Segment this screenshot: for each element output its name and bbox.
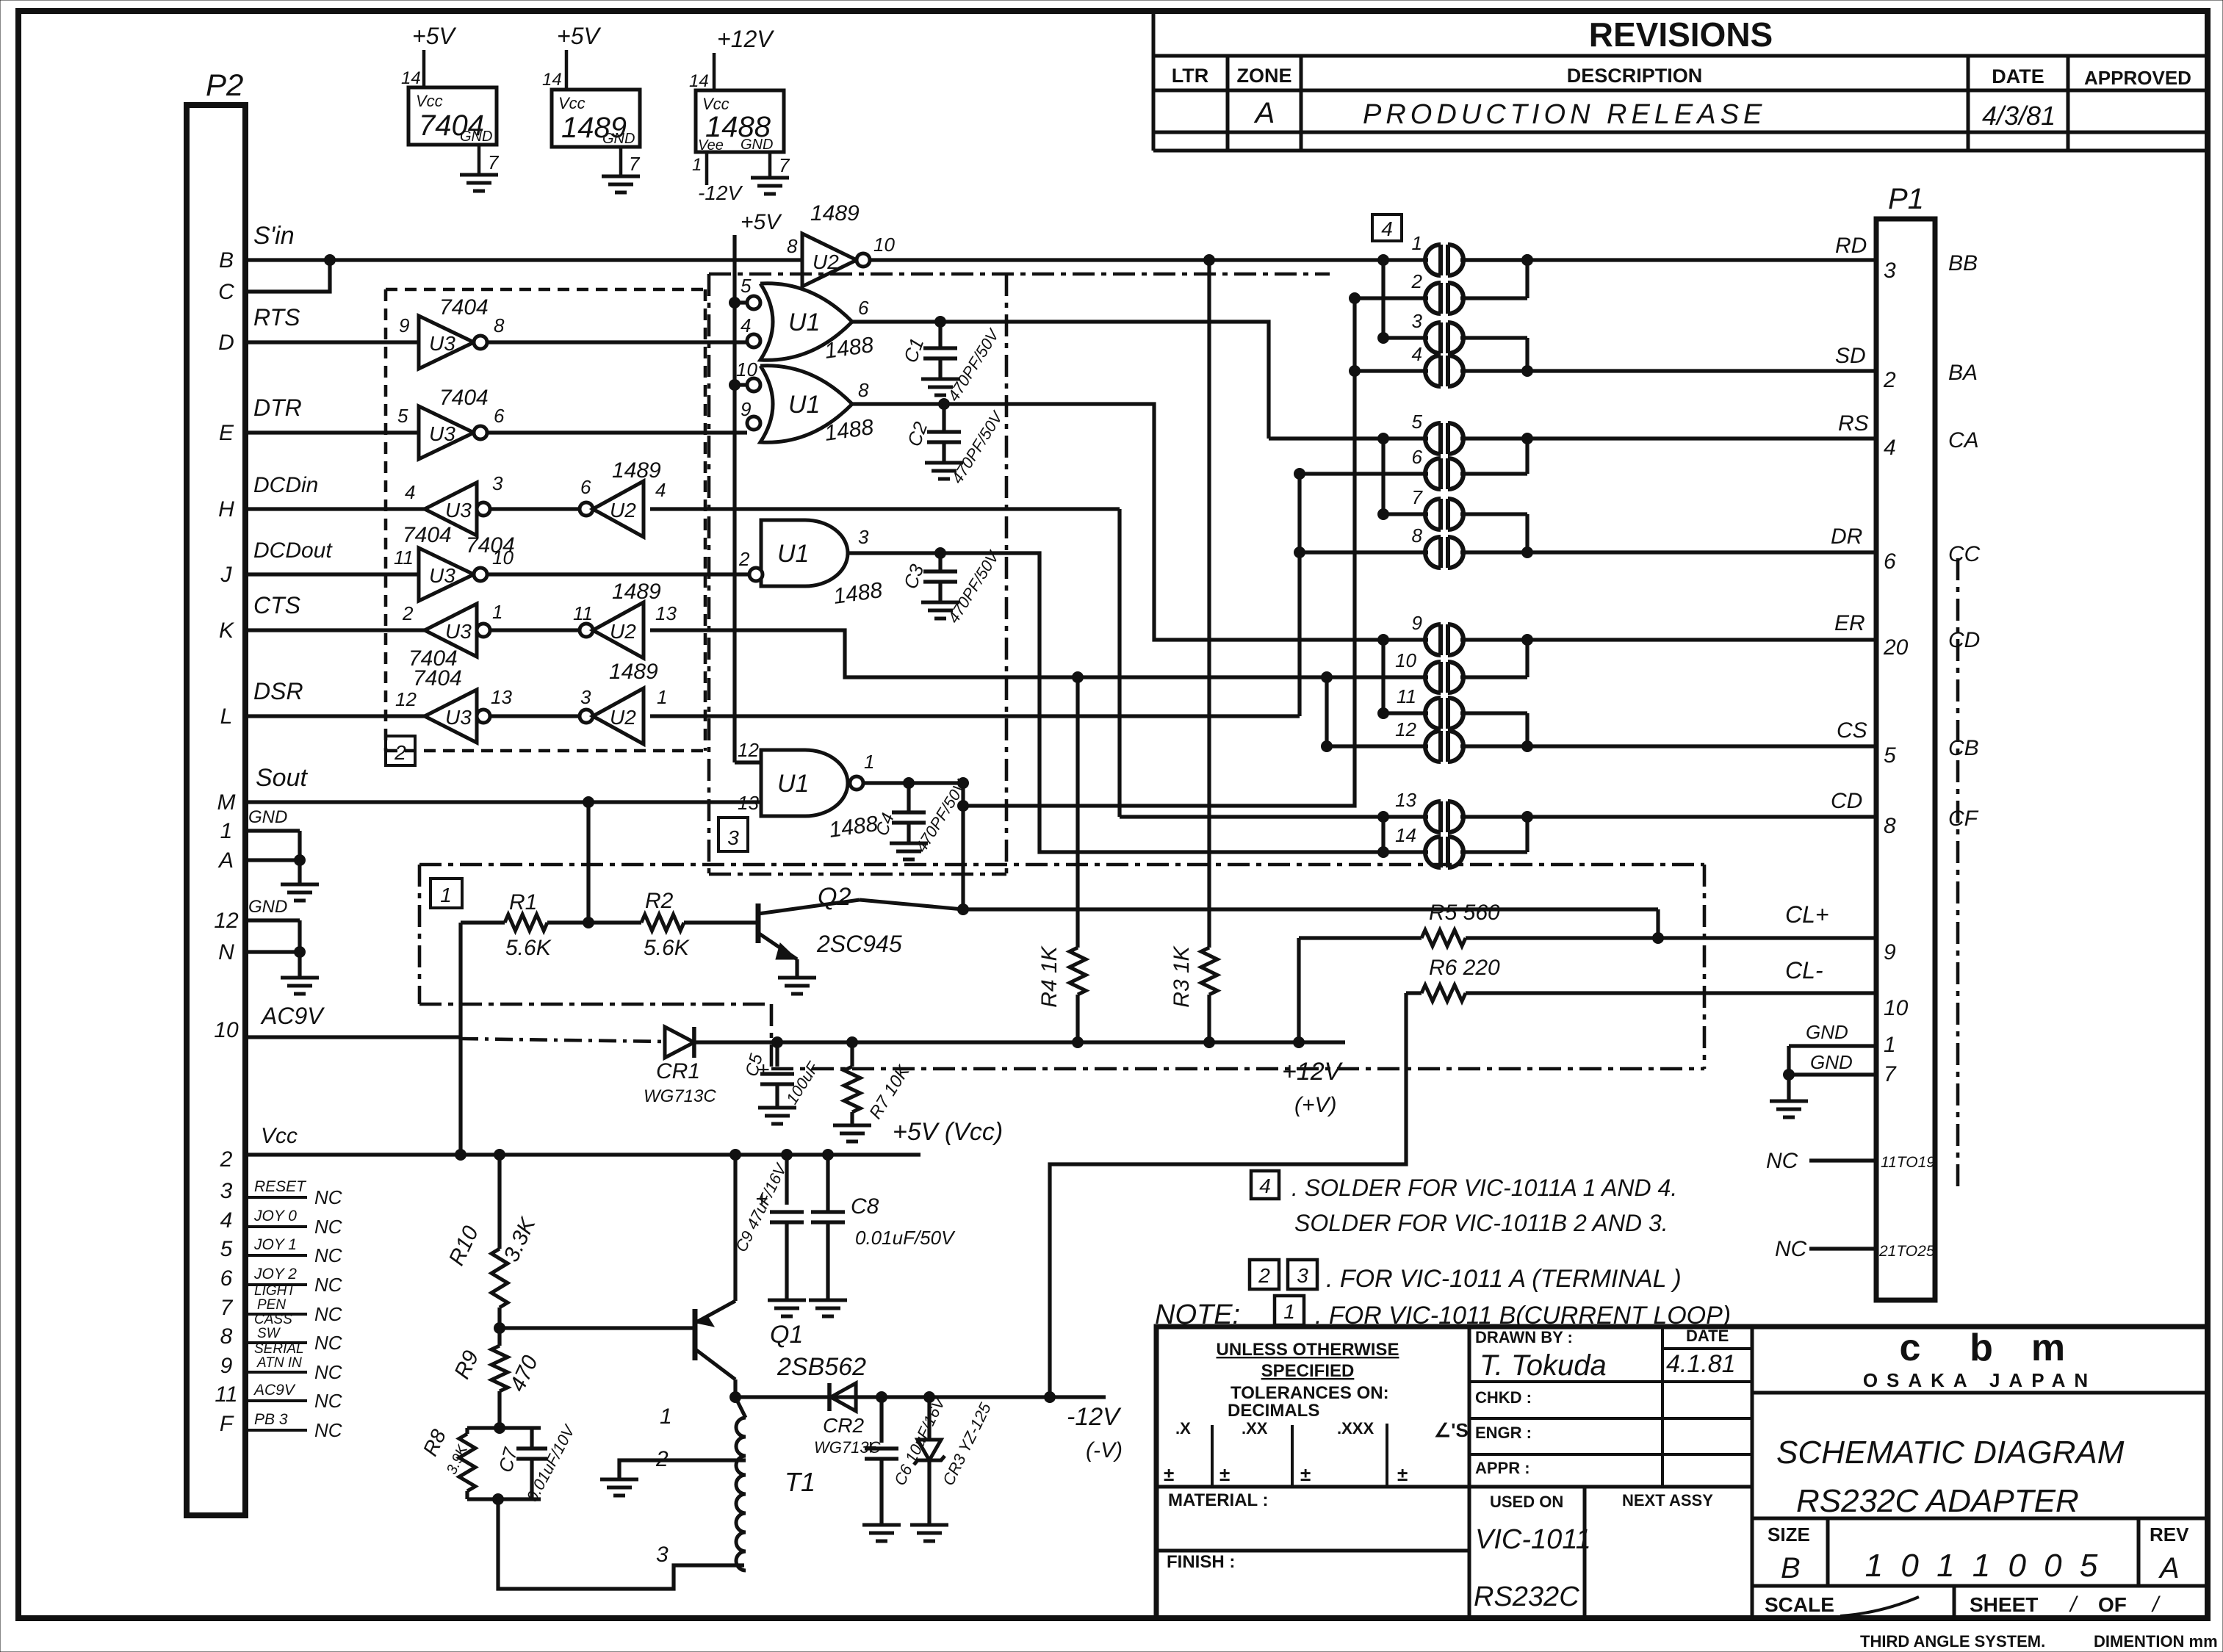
svg-text:7: 7 [1884,1062,1897,1086]
receiver U2 (DCDin, pins 6-4) [580,458,666,537]
receiver U2 (DSR, pins 3-1) [580,660,667,744]
svg-text:T. Tokuda: T. Tokuda [1480,1349,1607,1382]
resistor R5 560 [1299,901,1500,946]
svg-text:RTS: RTS [253,304,300,331]
node U1C/C3 [935,548,946,559]
svg-text:+5V: +5V [412,23,456,49]
svg-text:2: 2 [738,548,750,570]
ground (U3 7404 pin 7) [460,175,498,191]
svg-text:7404: 7404 [439,386,489,410]
svg-text:CC: CC [1948,542,1981,566]
node pad10 tie [1322,672,1333,683]
svg-text:10: 10 [736,358,757,380]
wire TX (U1D out) [865,781,963,784]
svg-text:±: ± [1300,1463,1311,1485]
svg-text:±: ± [1219,1463,1230,1485]
svg-text:Vcc: Vcc [261,1124,298,1148]
svg-text:JOY 2: JOY 2 [253,1266,297,1283]
resistor R6 220 [1406,956,1500,1001]
svg-text:7: 7 [779,154,790,176]
power block U3 7404 [401,23,500,173]
svg-text:SERIAL: SERIAL [254,1341,304,1357]
svg-text:13: 13 [655,602,677,624]
capacitor C6 10uF [864,1393,949,1523]
wire GND pin12 [245,897,300,920]
wire pad13 right [1460,815,1527,818]
svg-text:U2: U2 [813,250,839,273]
svg-text:U3: U3 [429,422,455,445]
svg-text:CA: CA [1948,428,1979,452]
drawn block text [1474,1327,1736,1612]
node Vcc/C9 [782,1150,793,1161]
box 3 (1488 group, dash-dot) [709,274,1330,874]
driver U1 gate D (pins 12,13-1) [738,739,879,843]
svg-text:BA: BA [1948,361,1978,385]
node pad tie 7 [1522,812,1533,823]
svg-text:12: 12 [395,688,417,710]
svg-text:U1: U1 [777,770,809,798]
wire pad11 right [1460,711,1527,715]
wire pad right tie 2 [1525,338,1529,371]
inverter U3 (CTS, pins 2-1) [402,601,502,671]
svg-text:REV: REV [2150,1523,2189,1545]
wire R8C7 bottom rail [467,1497,541,1501]
node CR3/-12V [924,1392,935,1403]
connector P1 [1876,183,1935,1300]
svg-text:1489: 1489 [612,580,661,604]
svg-text:21TO25: 21TO25 [1878,1243,1935,1260]
svg-text:USED ON: USED ON [1490,1493,1563,1511]
svg-text:A: A [1254,97,1275,129]
wire DTR row (P2.E to U3) [245,394,419,433]
capacitor C8 0.01uF [811,1155,956,1299]
node +5V/pin10 [729,380,741,391]
svg-text:0.01uF/50V: 0.01uF/50V [855,1227,956,1249]
svg-text:4: 4 [220,1208,233,1233]
svg-text:CASS: CASS [254,1312,292,1327]
wire AC9V row [245,1003,665,1042]
svg-text:14: 14 [542,70,562,90]
node pad tie 5 [1522,635,1533,646]
node RD/R3 [1204,255,1215,266]
resistor R1 5.6K [461,890,552,960]
svg-text:11TO19: 11TO19 [1881,1154,1935,1171]
node pads2-4 tie top [1350,293,1361,304]
wire GND tie A [298,831,301,860]
wire ER row to P1 [1527,638,1876,641]
svg-text:UNLESS OTHERWISE: UNLESS OTHERWISE [1217,1340,1399,1360]
node U1D/C4 [904,778,915,789]
svg-text:R3 1K: R3 1K [1170,945,1194,1007]
svg-text:OF: OF [2098,1593,2127,1616]
svg-text:R6 220: R6 220 [1429,956,1500,980]
svg-text:7: 7 [220,1296,234,1320]
node R10/Q1 base [494,1323,505,1334]
node +12V/R4 [1073,1037,1084,1048]
wire GND pin N [245,950,300,953]
svg-text:GND: GND [741,137,773,153]
svg-text:5.6K: 5.6K [505,936,552,960]
ground (C3) [921,602,959,618]
svg-text:APPR :: APPR : [1475,1459,1530,1477]
svg-text:C: C [218,280,234,304]
svg-text:11: 11 [1397,685,1416,707]
svg-text:L: L [220,704,233,729]
node +12V/R7 [847,1037,858,1048]
svg-text:+12V: +12V [717,26,774,52]
wire R8C7 top rail [467,1426,541,1429]
node -12V vertical [1045,1392,1056,1403]
transformer T1 [619,1397,815,1570]
svg-text:NC: NC [1775,1237,1807,1261]
svg-text:CF: CF [1948,807,1979,831]
wire CD row to P1 [1527,815,1876,818]
node pad tie 2 [1522,366,1533,377]
wire pad10 right [1460,675,1527,679]
svg-text:NC: NC [314,1390,342,1412]
driver U1 gate A (pins 5,4-6) [741,275,875,364]
node Sout/R2 branch [583,797,594,808]
capacitor C3 [899,547,1004,627]
svg-text:CB: CB [1948,736,1979,760]
wire pad7 right [1460,512,1527,516]
svg-text:R4 1K: R4 1K [1037,945,1062,1007]
svg-text:3: 3 [1412,310,1423,332]
svg-text:7404: 7404 [403,523,452,547]
svg-text:RESET: RESET [254,1178,307,1195]
node pad tie 3 [1522,433,1533,444]
svg-text:U3: U3 [445,499,472,522]
svg-text:F: F [220,1412,234,1436]
ground (C4) [890,843,928,859]
svg-text:E: E [219,421,234,445]
ground (C1) [921,379,959,395]
svg-text:SW: SW [257,1326,281,1341]
ground (U2 1489 pin 7) [602,176,640,192]
wire CL+ branch [1656,909,1660,938]
svg-text:A: A [217,848,234,873]
svg-text:NC: NC [314,1419,342,1441]
node RD/pad right tie [1522,255,1533,266]
wire TX vertical [961,783,965,909]
ground (CR3) [910,1525,948,1541]
svg-text:THIRD ANGLE SYSTEM.: THIRD ANGLE SYSTEM. [1860,1632,2045,1651]
svg-text:1: 1 [864,751,874,773]
svg-text:ENGR :: ENGR : [1475,1424,1532,1442]
ground (R7) [833,1125,871,1141]
wire pad9 right [1460,638,1527,641]
svg-text:3: 3 [1884,259,1896,283]
svg-text:4: 4 [1381,217,1393,240]
svg-text:2: 2 [220,1147,233,1172]
svg-text:R1: R1 [509,890,537,915]
wire pads9-11 tie [1381,640,1385,713]
svg-text:D: D [218,331,234,355]
node pad tie 4 [1522,547,1533,558]
wire RTS row (P2.D to U3) [245,304,419,342]
svg-text:RD: RD [1835,234,1867,258]
node ER/pads 9-11 tie [1378,635,1389,646]
wire RS row to P1 [1527,436,1876,440]
solder pad 8 [1412,524,1463,568]
svg-text:ATN IN: ATN IN [256,1355,302,1371]
wire pad10 left [1327,675,1428,679]
wire pad1 right [1460,258,1527,261]
svg-text:6: 6 [1884,549,1896,574]
svg-text:A: A [2158,1552,2180,1584]
wire DCDout' (U3 out to U1 pin2) [487,572,750,576]
node Vcc/C8 [823,1150,834,1161]
svg-text:10: 10 [214,1018,239,1042]
svg-text:DR: DR [1831,524,1862,549]
wire pad8 right [1460,550,1527,554]
node pads2-4 tie mid [1350,366,1361,377]
wire RD row (U2 out to P1 pin3) [870,258,1876,261]
wire pad12 left [1327,744,1428,748]
wire pad5 left [1269,436,1428,440]
wire GND7 (P1 pin7) [1789,1051,1876,1075]
svg-text:U2: U2 [610,499,636,522]
svg-text:ZONE: ZONE [1236,65,1291,87]
svg-text:B: B [219,248,234,273]
svg-text:4/3/81: 4/3/81 [1982,101,2056,131]
svg-text:8: 8 [787,235,798,257]
node Sin/C junction [325,255,336,266]
ground (U1 1488 pin 7) [751,178,789,194]
wire NC 21to25 [1775,1237,1876,1261]
svg-text:.XXX: .XXX [1337,1419,1374,1438]
node pad6 tie [1294,469,1305,480]
wire pad right tie 7 [1525,817,1529,852]
solder pad 6 [1412,446,1463,489]
node RD/pad1 tie [1378,255,1389,266]
svg-text:GND: GND [602,131,635,147]
svg-text:LIGHT: LIGHT [254,1283,296,1299]
svg-text:2: 2 [1883,368,1896,392]
svg-text:TOLERANCES ON:: TOLERANCES ON: [1231,1383,1389,1403]
svg-text:3: 3 [656,1543,669,1567]
svg-text:U3: U3 [445,706,472,729]
node pad5 tie [1378,433,1389,444]
wire CD' (U1C out to pad14) [848,553,1428,852]
svg-text:14: 14 [689,71,709,91]
svg-text:13: 13 [491,686,512,708]
svg-text:9: 9 [741,398,751,420]
wire GND pin A [245,858,300,862]
svg-text:1: 1 [220,819,233,843]
inverter U3 (DSR, pins 12-13) [395,666,512,743]
svg-text:b: b [1970,1327,1993,1369]
wire DSR from pads (U2 in to x1769) [650,714,1300,718]
svg-text:GND: GND [1806,1021,1848,1043]
svg-text:c: c [1900,1327,1921,1369]
wire pad2 left [1355,296,1428,300]
ground (C5) [758,1108,796,1124]
wire DCDin row (P2.H to U3) [245,473,425,509]
node pad7 tie [1378,509,1389,520]
svg-text:11: 11 [573,602,593,624]
svg-text:4: 4 [1884,436,1896,460]
svg-text:1: 1 [440,884,452,906]
wire pad13 left [1120,815,1428,818]
node pad11 tie [1378,708,1389,719]
ground (C8) [809,1300,847,1316]
node U1B/C2 [939,399,950,410]
svg-text:MATERIAL :: MATERIAL : [1168,1490,1268,1510]
node CTS/R4 [1073,672,1084,683]
svg-text:2SB562: 2SB562 [777,1353,866,1381]
svg-text:CR1: CR1 [656,1059,700,1083]
svg-text:7404: 7404 [439,295,489,320]
capacitor C7 0.01uF [494,1421,580,1504]
driver U1 gate B (pins 10,9-8) [736,358,875,446]
wire CS row to P1 [1527,744,1876,748]
solder pad 2 [1411,270,1463,314]
net Vcc row [245,1118,1003,1155]
svg-text:DATE: DATE [1992,65,2044,87]
svg-text:SOLDER FOR VIC-1011B 2 AND 3.: SOLDER FOR VIC-1011B 2 AND 3. [1294,1210,1668,1236]
svg-text:3: 3 [727,826,739,849]
svg-text:12: 12 [214,909,239,933]
wire CTS from pads (U2 in, jog) [650,630,1327,677]
P2 NC stub pins [245,1178,342,1441]
svg-text:12: 12 [738,739,759,761]
inverter U3 (RTS, pins 9-8) [399,295,505,369]
svg-text:C8: C8 [851,1194,879,1219]
svg-text:DATE: DATE [1686,1327,1729,1345]
wire Q2 emitter stem [795,959,799,976]
zener CR3 YZ-125 [914,1397,995,1523]
node R8C7 bottom [493,1494,504,1505]
svg-text:CHKD :: CHKD : [1475,1388,1532,1407]
svg-text:2SC945: 2SC945 [816,931,902,957]
title block frame [1156,1327,2208,1618]
resistor R4 1K [1037,677,1086,1042]
wire U3-U2 (CTS) [490,628,586,632]
svg-text:U2: U2 [610,620,636,643]
svg-text:R2: R2 [645,889,674,913]
wire DSR row (P2.L to U3) [245,678,425,716]
svg-text:LTR: LTR [1172,65,1208,87]
svg-text:N: N [218,940,234,964]
resistor R2 5.6K [641,889,691,960]
node R9/R8C7 [494,1423,505,1434]
ground (C9) [768,1300,806,1316]
svg-text:12: 12 [1395,718,1416,740]
svg-text:SHEET: SHEET [1970,1593,2038,1616]
svg-text:DCDin: DCDin [253,473,318,497]
note 2 3 [1250,1260,1682,1293]
ground (Q2 emitter) [778,978,816,994]
net -12V row [735,1397,1123,1462]
net +5V (U1 inputs rail) [735,210,782,762]
wire pads1-3 tie [1381,260,1385,338]
svg-text:U3: U3 [429,332,455,355]
wire RS' (U1A out) [852,322,1269,439]
box 2 (7404/1489 group, dashed) [386,289,705,765]
svg-text:PEN: PEN [257,1297,286,1313]
scale row [1765,1586,2161,1618]
svg-text:Vee: Vee [698,137,724,154]
svg-text:U2: U2 [610,706,636,729]
wire Q1 base row [500,1326,695,1330]
svg-text:B: B [1781,1552,1801,1584]
ground (T1 pin2) [600,1479,638,1496]
svg-text:13: 13 [1395,789,1416,811]
svg-text:14: 14 [401,68,421,88]
wire DCDin from pads (U2 in to x1524) [650,507,1120,511]
wire R1-R2 row [547,920,641,924]
wire DTR' (U3 out to U1 pin9) [487,430,747,434]
svg-text:NC: NC [314,1361,342,1383]
P1 signal names [1785,234,1869,984]
svg-text:GND: GND [460,129,492,145]
svg-text:S'in: S'in [253,222,295,250]
svg-text:NC: NC [1766,1149,1798,1173]
svg-text:20: 20 [1883,635,1909,660]
wire pad14 right [1460,850,1527,854]
svg-text:U1: U1 [788,309,820,336]
third angle note [1860,1632,2218,1651]
note 1 [1155,1296,1731,1330]
svg-text:RS: RS [1838,411,1869,436]
material finish text [1167,1490,1268,1572]
svg-text:1 0 1 1 0 0 5: 1 0 1 1 0 0 5 [1865,1548,2103,1584]
tolerance text [1164,1340,1469,1485]
svg-text:NC: NC [314,1216,342,1238]
svg-text:OSAKA JAPAN: OSAKA JAPAN [1863,1369,2097,1391]
solder pad 1 [1412,232,1463,275]
svg-text:.X: .X [1175,1419,1191,1438]
wire Sin row (P2.B to U2 pin8) [245,222,802,260]
inverter U3 (DTR, pins 5-6) [397,386,505,459]
svg-text:DCDout: DCDout [253,538,333,563]
wire CL+ row [1466,936,1876,939]
diode CR1 WG713C [644,1027,716,1106]
node TX/pads 2-4 branch [958,801,969,812]
svg-text:+5V: +5V [557,23,601,49]
wire pad right tie 6 [1525,713,1529,746]
node Vcc/R10 [494,1150,505,1161]
svg-text:SIZE: SIZE [1768,1523,1810,1545]
svg-text:K: K [219,618,235,643]
capacitor C2 [903,404,1007,487]
size row [1752,1518,2208,1586]
net +12V rail [694,1042,1345,1117]
svg-text:+12V: +12V [1282,1058,1344,1086]
node +12V/R3 [1204,1037,1215,1048]
svg-text:1: 1 [657,686,667,708]
ground (P1 GND) [1770,1075,1808,1117]
wire DR row to P1 [1527,550,1876,554]
svg-text:NEXT ASSY: NEXT ASSY [1622,1491,1713,1509]
svg-text:14: 14 [1395,824,1416,846]
solder pad 11 [1397,685,1463,729]
wire U3-U2 (DSR) [490,714,586,718]
svg-text:1: 1 [1884,1033,1896,1057]
svg-text:APPROVED: APPROVED [2084,67,2191,89]
wire U3-U2 (DCDin) [490,507,586,511]
svg-text:-12V: -12V [698,181,743,204]
P1 right labels [1948,251,1981,831]
inverter U3 (DCDin, pins 4-3) [403,472,503,547]
capacitor C5 100uF [742,1042,823,1108]
svg-text:DSR: DSR [253,678,303,704]
wire NC 11to19 [1766,1149,1876,1173]
svg-text:1489: 1489 [612,458,661,483]
svg-text:4: 4 [1259,1175,1271,1197]
resistor R3 1K [1170,260,1217,1042]
